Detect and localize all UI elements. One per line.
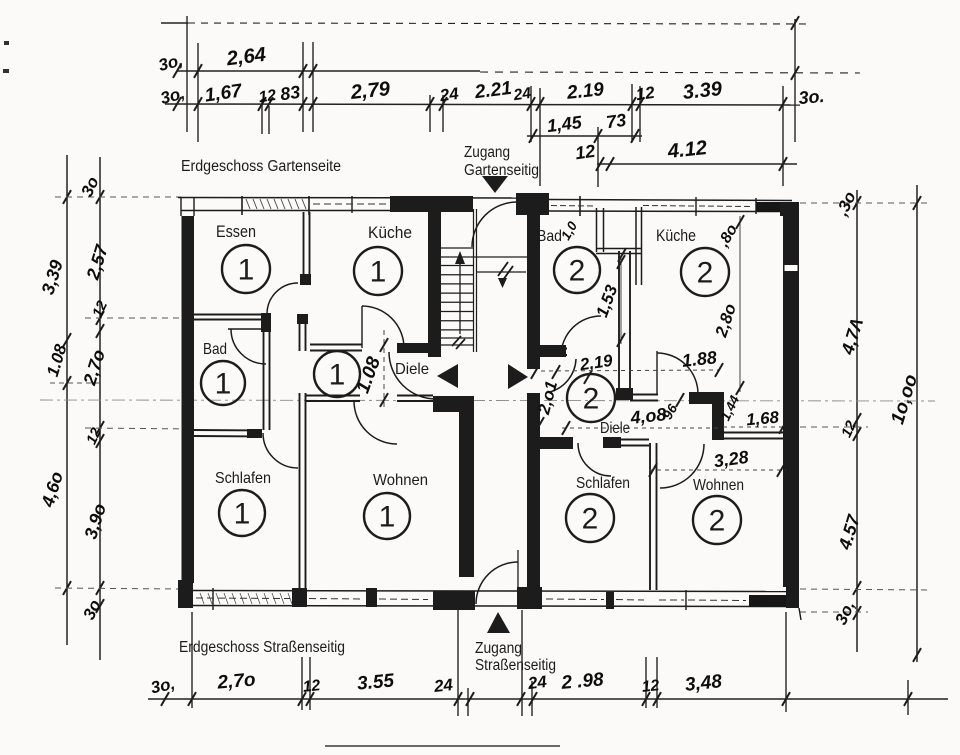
window mid line bottom wohnen1 a bbox=[309, 598, 364, 601]
svg-text:3.39: 3.39 bbox=[682, 78, 724, 104]
bottom dim guide vertical bbox=[521, 610, 523, 716]
wall bad2/diele2 a bbox=[539, 348, 567, 350]
dim line 3.28 bbox=[649, 469, 786, 471]
wall bottom-left corner pier bbox=[178, 580, 193, 608]
svg-text:24: 24 bbox=[432, 675, 454, 696]
triangle hall right (into apt2) bbox=[508, 364, 528, 389]
stair top landing edge bbox=[441, 247, 474, 249]
stair step low b bbox=[441, 344, 473, 346]
svg-text:Bad: Bad bbox=[537, 228, 562, 245]
stair step bbox=[441, 329, 473, 331]
shaft bottom b bbox=[596, 253, 642, 255]
top dim guide vertical bbox=[530, 86, 532, 142]
left dim outer vertical bbox=[66, 155, 68, 645]
wall bad/schlafen a bbox=[194, 429, 262, 432]
wall bottom pier left of street entrance bbox=[433, 591, 475, 610]
wall chunk diele2/schlafen2 left bbox=[539, 437, 573, 449]
circle apartment 1 diele bbox=[314, 351, 360, 397]
stair direction arrow head up bbox=[455, 251, 465, 264]
wall pier right of garden entrance bbox=[516, 193, 549, 215]
svg-text:4.12: 4.12 bbox=[666, 137, 709, 163]
svg-text:1: 1 bbox=[379, 501, 396, 534]
wall bottom pier 1 bbox=[292, 588, 307, 607]
window mid line bottom schlafen2 b bbox=[616, 599, 644, 602]
stair step bbox=[441, 311, 473, 313]
door arc wohnen1 bbox=[354, 401, 397, 444]
right connector y427 bbox=[800, 426, 868, 428]
wall diele2/schlafen2 b bbox=[603, 445, 649, 447]
wall partition schlafen/wohnen b bbox=[305, 393, 307, 589]
top dim line row4 (4.12) bbox=[597, 163, 797, 165]
left connector y588 bbox=[55, 588, 180, 589]
svg-text:1.88: 1.88 bbox=[681, 347, 718, 371]
triangle street entrance (up) bbox=[487, 612, 510, 633]
wall top inner line apt2 bbox=[549, 210, 783, 213]
top dim guide vertical bbox=[794, 19, 796, 142]
wall partition mid a bbox=[299, 314, 301, 351]
circle apartment 1 kueche bbox=[354, 247, 402, 295]
top dim guide vertical bbox=[312, 42, 314, 132]
wall stub bad north-east bbox=[261, 313, 271, 332]
svg-text:12: 12 bbox=[258, 87, 278, 106]
wall bottom dark segment right bbox=[749, 595, 786, 607]
wall partition bad2/kueche2 b bbox=[629, 251, 631, 399]
wall partition schlafen2/wohnen2 b bbox=[656, 443, 658, 590]
left connector y428 bbox=[85, 428, 194, 429]
stair step low a bbox=[441, 337, 473, 339]
stair step bbox=[441, 283, 473, 285]
top dim guide vertical bbox=[639, 86, 641, 142]
wall dark segment top right bbox=[756, 202, 786, 212]
dim line 2.19/1.88 bbox=[541, 370, 719, 371]
wall diele/wohnen1 right a bbox=[397, 395, 433, 397]
window mid line bottom wohnen2 a bbox=[659, 599, 684, 601]
window mid line bad2 bbox=[551, 205, 594, 208]
wall essen/bad a bbox=[194, 314, 267, 316]
door arc apartment2 entrance bbox=[550, 359, 576, 392]
stair divider line a bbox=[473, 209, 475, 352]
circle apartment 1 schlafen bbox=[219, 490, 265, 536]
wall wohnen1 right (black) bbox=[459, 409, 474, 577]
window mid line kueche2 b bbox=[699, 205, 753, 208]
dim line diele1 width bbox=[383, 330, 385, 408]
svg-text:73: 73 bbox=[605, 110, 628, 133]
wall diele2/schlafen2 a bbox=[603, 439, 649, 441]
stair direction line down bbox=[477, 271, 526, 273]
door leaf kueche1 bbox=[361, 306, 363, 348]
svg-text:2: 2 bbox=[697, 257, 714, 290]
top dim guide vertical bbox=[539, 88, 541, 186]
stair divider line b bbox=[476, 209, 478, 352]
wall bad/schlafen b bbox=[194, 435, 262, 438]
door leaf street entrance bbox=[517, 550, 519, 604]
svg-text:Essen: Essen bbox=[216, 222, 256, 241]
stair direction arrow head down bbox=[498, 278, 507, 288]
wall top outer line apt2 bbox=[549, 200, 792, 201]
window mid line bottom schlafen2 bbox=[546, 598, 604, 601]
stair lower break mark a bbox=[452, 336, 461, 346]
wall bottom pier right of street entrance bbox=[517, 587, 542, 609]
wall chunk diele2/schlafen2 right bbox=[603, 437, 621, 448]
svg-text:3.55: 3.55 bbox=[356, 670, 395, 694]
window joint at partition bbox=[308, 196, 310, 215]
circle apartment 2 bad bbox=[554, 247, 600, 293]
door leaf bad1 bbox=[228, 328, 266, 330]
window tick essen bbox=[241, 196, 243, 215]
stair break mark b bbox=[503, 266, 513, 280]
wall diele/wohnen1 right b bbox=[397, 400, 433, 402]
circle apartment 1 essen bbox=[222, 245, 270, 293]
svg-text:Küche: Küche bbox=[368, 223, 412, 242]
wall niche a bbox=[723, 432, 786, 434]
svg-text:Küche: Küche bbox=[656, 226, 696, 245]
stair wall left (black) bbox=[428, 209, 441, 357]
wall bottom pier 2 bbox=[366, 588, 377, 607]
svg-text:12: 12 bbox=[635, 83, 657, 105]
top dim guide vertical bbox=[186, 16, 188, 132]
window mid line bottom wohnen1 b bbox=[379, 598, 428, 601]
circle apartment 1 bad bbox=[201, 361, 245, 405]
wall essen/bad b bbox=[194, 319, 267, 321]
bottom dim guide vertical bbox=[191, 612, 193, 708]
door arc kueche2 bbox=[657, 353, 698, 394]
wall partition mid b bbox=[305, 314, 307, 351]
left connector y383 bbox=[50, 382, 100, 384]
svg-text:2: 2 bbox=[709, 505, 726, 538]
door arc street entrance bbox=[476, 562, 518, 604]
top dim guide vertical bbox=[261, 99, 263, 134]
svg-text:2,79: 2,79 bbox=[349, 78, 392, 104]
right connector y612 bbox=[800, 611, 868, 613]
top dim line row3 (1.45/73) bbox=[527, 135, 642, 137]
door arc apartment1 entrance bbox=[389, 352, 436, 399]
bottom dim guide vertical bbox=[656, 657, 658, 708]
svg-text:Erdgeschoss Straßenseitig: Erdgeschoss Straßenseitig bbox=[179, 639, 345, 656]
bottom dim guide vertical bbox=[309, 657, 311, 710]
shaft right line b bbox=[641, 207, 643, 285]
wall bottom-right corner bbox=[786, 587, 799, 608]
svg-text:1: 1 bbox=[238, 254, 255, 287]
wall diele/wohnen1 b bbox=[306, 400, 360, 402]
right connector y203 bbox=[800, 202, 930, 204]
window tick kueche1 bbox=[351, 196, 353, 213]
shaft left line b bbox=[603, 208, 605, 252]
wall bar niche left (black) bbox=[712, 394, 724, 440]
top dim guide vertical bbox=[597, 127, 599, 187]
window mid line kueche1 bbox=[313, 203, 388, 205]
wall kueche2 south right b bbox=[696, 400, 724, 402]
left connector y318 bbox=[85, 317, 194, 319]
top dim row1 dashed ext bbox=[480, 72, 860, 73]
svg-text:Straßenseitig: Straßenseitig bbox=[475, 657, 556, 674]
svg-text:12: 12 bbox=[302, 677, 321, 696]
scan speck left edge b bbox=[3, 69, 9, 73]
wall kueche1/diele right end (black) bbox=[397, 343, 434, 353]
wall chunk partition2 bottom bbox=[616, 388, 633, 400]
bottom dim guide vertical bbox=[645, 657, 647, 708]
svg-text:Zugang: Zugang bbox=[475, 640, 522, 657]
circle apartment 1 wohnen bbox=[364, 493, 410, 539]
circle apartment 2 schlafen bbox=[566, 494, 614, 542]
wall kueche2 south right a bbox=[696, 394, 724, 396]
bottom dim guide vertical bbox=[785, 612, 787, 712]
wall chunk partition below essen door bbox=[297, 314, 308, 324]
wall bad right b bbox=[269, 332, 271, 430]
window mid line kueche2 a bbox=[643, 205, 694, 208]
door arc wohnen2 bbox=[660, 444, 704, 488]
svg-text:2: 2 bbox=[583, 383, 600, 416]
wall partition schlafen2/wohnen2 a bbox=[649, 443, 651, 590]
shaft bottom a bbox=[596, 248, 642, 250]
wall bottom small pier apt2 bbox=[606, 592, 614, 609]
stair step bbox=[441, 274, 473, 276]
stair step bbox=[441, 265, 473, 267]
shaft left line a bbox=[596, 208, 598, 252]
stair break mark a bbox=[498, 262, 508, 276]
svg-text:Diele: Diele bbox=[395, 361, 429, 378]
door arc garden entrance bbox=[472, 202, 517, 247]
wall wohnen1 north-east (black) bbox=[433, 396, 474, 412]
wall bad2/diele2 b bbox=[539, 354, 567, 356]
bottom dim guide vertical bbox=[457, 610, 459, 716]
right dim inner vertical bbox=[856, 190, 858, 652]
wall top outer line apt1 bbox=[178, 197, 549, 200]
dim line kueche2 height bbox=[739, 216, 741, 392]
wall diele/wohnen1 a bbox=[306, 395, 360, 397]
centre axis dash-dot line bbox=[40, 400, 935, 401]
svg-text:1: 1 bbox=[329, 359, 346, 392]
svg-text:Wohnen: Wohnen bbox=[693, 477, 744, 494]
stair direction stem up bbox=[459, 258, 461, 334]
wall top-right corner bbox=[780, 202, 799, 216]
wall chunk kueche2 south-east bbox=[689, 392, 724, 404]
svg-text:1: 1 bbox=[215, 368, 232, 401]
wall bottom right end cap bbox=[799, 608, 801, 620]
window tick kueche2 bbox=[695, 197, 697, 216]
window mid line bottom wohnen2 b bbox=[688, 599, 746, 602]
circle apartment 2 wohnen bbox=[693, 496, 741, 544]
right dim outer vertical bbox=[916, 185, 918, 662]
door arc schlafen1 bbox=[263, 433, 298, 468]
dim line bad2 height bbox=[620, 258, 622, 344]
door arc schlafen2 bbox=[578, 443, 611, 476]
wall right outer (black) bbox=[783, 202, 799, 587]
stair step bbox=[441, 301, 473, 303]
svg-text:1,68: 1,68 bbox=[745, 408, 780, 430]
wall chunk partition above essen door bbox=[300, 274, 311, 285]
triangle garden entrance (down) bbox=[482, 176, 508, 193]
triangle hall left (into apt1) bbox=[437, 364, 458, 388]
circle apartment 2 kueche bbox=[681, 248, 729, 296]
wall niche b bbox=[723, 438, 786, 440]
left dim inner vertical bbox=[99, 157, 101, 660]
dim line 1.68 bbox=[723, 426, 786, 428]
top dim line row1 bbox=[177, 70, 480, 72]
wall kueche1/diele a bbox=[310, 344, 362, 346]
dim line 4.08 bbox=[562, 427, 720, 429]
top dim line row0 dashed bbox=[188, 23, 810, 24]
svg-text:3o.: 3o. bbox=[798, 86, 826, 108]
svg-text:Zugang: Zugang bbox=[464, 144, 510, 161]
svg-text:2.19: 2.19 bbox=[565, 79, 605, 104]
wall bottom outer line bbox=[178, 606, 799, 607]
wall partition essen/kueche b bbox=[309, 212, 311, 284]
top dim line row2 bbox=[165, 104, 800, 105]
svg-text:2: 2 bbox=[582, 503, 599, 536]
scan streak bottom bbox=[325, 745, 560, 747]
bottom dim line bbox=[148, 698, 948, 700]
svg-text:83: 83 bbox=[279, 82, 302, 105]
left connector y197 bbox=[55, 196, 181, 198]
svg-text:Bad: Bad bbox=[203, 341, 227, 358]
window tick bottom apt2 bbox=[685, 590, 687, 610]
door arc kueche1 bbox=[362, 306, 404, 348]
top dim guide vertical bbox=[782, 86, 784, 186]
svg-text:2,7o: 2,7o bbox=[216, 669, 257, 693]
top dim line row0 solid start bbox=[161, 22, 188, 24]
wall kueche2/diele2 b bbox=[630, 400, 658, 402]
svg-text:1: 1 bbox=[234, 498, 251, 531]
bottom dim guide vertical bbox=[907, 680, 909, 715]
bottom dim guide vertical bbox=[301, 657, 303, 710]
door arc essen bbox=[267, 283, 298, 314]
svg-text:24: 24 bbox=[512, 85, 533, 104]
svg-text:12: 12 bbox=[641, 677, 660, 696]
wall top inner line apt1 bbox=[181, 210, 390, 212]
right connector y589 bbox=[800, 589, 930, 590]
svg-text:24: 24 bbox=[526, 672, 548, 693]
wall chunk bad/schlafen right end bbox=[247, 429, 262, 438]
wall left outer top corner line bbox=[180, 197, 182, 216]
svg-text:Wohnen: Wohnen bbox=[373, 472, 428, 489]
svg-text:2: 2 bbox=[569, 255, 586, 288]
top dim guide vertical bbox=[197, 43, 199, 142]
top dim guide vertical bbox=[429, 95, 431, 132]
window tick kueche2 b bbox=[755, 198, 757, 214]
stair step bbox=[441, 292, 473, 294]
shaft right line a bbox=[635, 207, 637, 285]
top dim guide vertical bbox=[268, 106, 270, 134]
circle apartment 2 diele bbox=[567, 374, 615, 422]
door arc bad2 bbox=[561, 316, 601, 356]
door arc bad1 bbox=[231, 329, 266, 364]
scan speck left edge a bbox=[4, 41, 9, 45]
wall kueche1/diele b bbox=[310, 350, 362, 352]
stair mid landing line bbox=[441, 256, 527, 258]
svg-text:Gartenseitig: Gartenseitig bbox=[464, 162, 539, 179]
svg-text:Schlafen: Schlafen bbox=[215, 470, 271, 487]
top dim guide vertical bbox=[442, 95, 444, 132]
svg-text:12: 12 bbox=[574, 141, 597, 164]
stair/hall wall right (black) bbox=[527, 213, 540, 588]
wall arm bad2/diele2 left end bbox=[539, 345, 566, 357]
wall left outer (black) bbox=[182, 216, 195, 583]
wall pier left of garden entrance bbox=[390, 196, 473, 212]
wall kueche2/diele2 a bbox=[630, 394, 658, 396]
bottom dim guide vertical bbox=[467, 688, 469, 716]
svg-text:2 .98: 2 .98 bbox=[560, 669, 605, 694]
window mid line bottom schlafen1 bbox=[196, 597, 290, 600]
bottom dim guide vertical bbox=[531, 681, 533, 716]
wall partition schlafen/wohnen a bbox=[299, 393, 301, 589]
wall bottom inner line bbox=[193, 591, 786, 592]
wall bad right a bbox=[263, 332, 265, 430]
window tick bad2 bbox=[579, 196, 581, 216]
top dim guide vertical bbox=[631, 84, 633, 142]
top dim guide vertical bbox=[302, 42, 304, 132]
svg-text:1: 1 bbox=[370, 256, 387, 289]
svg-text:3,48: 3,48 bbox=[684, 671, 723, 696]
svg-text:Schlafen: Schlafen bbox=[576, 475, 630, 492]
wall partition essen/kueche a bbox=[303, 212, 305, 284]
door leaf kueche2 bbox=[656, 351, 658, 394]
wall partition bad2/kueche2 a bbox=[618, 251, 620, 399]
window tick bottom schlafen1 bbox=[212, 588, 214, 610]
stair lower break mark b bbox=[456, 339, 465, 349]
svg-text:24: 24 bbox=[438, 84, 461, 106]
stair step bbox=[441, 320, 473, 322]
svg-text:Erdgeschoss Gartenseite: Erdgeschoss Gartenseite bbox=[181, 158, 341, 175]
